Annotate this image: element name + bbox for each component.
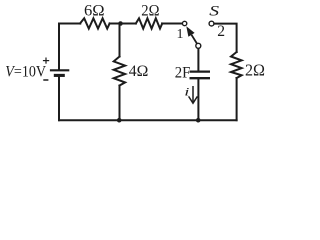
svg-text:2F: 2F <box>175 64 191 81</box>
label - (battery) <box>43 79 48 81</box>
resistor R4 2-ohm (right) vertical zigzag <box>231 52 242 78</box>
capacitor C 2F: bottom plate <box>190 77 211 79</box>
capacitor C 2F: top plate <box>190 70 211 72</box>
resistor R3 4-ohm vertical zigzag <box>114 57 125 86</box>
svg-text:V=10V: V=10V <box>5 63 46 80</box>
switch arm arrowhead pointing at contact 1 <box>186 26 194 36</box>
wire: capacitor bottom plate down to bottom rail <box>197 79 199 120</box>
svg-text:2Ω: 2Ω <box>141 2 159 19</box>
current arrow i shaft <box>192 86 194 103</box>
svg-text:i: i <box>184 85 189 99</box>
battery V: short negative plate <box>54 74 65 77</box>
resistor R1 6-ohm zigzag <box>80 18 110 28</box>
current arrow i open head <box>189 96 198 103</box>
switch S contact 1 (open circle) <box>182 21 186 25</box>
wire: right branch bottom segment <box>236 78 238 120</box>
svg-text:2Ω: 2Ω <box>245 61 265 80</box>
wire: 4-ohm branch bottom segment <box>119 86 121 121</box>
wire: left vertical from battery - down to bottom rail <box>58 76 60 121</box>
svg-text:2: 2 <box>217 23 225 40</box>
wire: left vertical from battery + up and top wire to 6-ohm resistor <box>59 24 80 70</box>
wire: switch contact 2 to right branch top <box>215 24 237 52</box>
svg-text:1: 1 <box>177 27 184 42</box>
label + (battery) <box>43 58 49 64</box>
wire: 6-ohm to 2-ohm through node A <box>110 23 136 25</box>
battery V: long positive plate <box>50 69 69 71</box>
wire: 4-ohm branch top segment <box>119 24 121 57</box>
wire: switch pivot down to capacitor top plate <box>197 49 199 71</box>
junction node A (top of 4-ohm branch) <box>118 21 123 26</box>
svg-text:4Ω: 4Ω <box>129 63 149 80</box>
resistor R2 2-ohm (top) zigzag <box>136 18 162 28</box>
switch S contact 2 (open circle) <box>209 21 214 26</box>
switch arm shaft <box>192 35 197 44</box>
switch S pivot (open circle) <box>196 43 201 48</box>
junction node C (bottom of capacitor branch) <box>196 118 201 123</box>
wire: bottom rail <box>59 119 237 121</box>
wire: 2-ohm to switch contact 1 <box>162 23 182 25</box>
junction node B (bottom of 4-ohm branch) <box>117 118 122 123</box>
svg-text:6Ω: 6Ω <box>84 2 105 19</box>
svg-text:S: S <box>209 3 220 19</box>
